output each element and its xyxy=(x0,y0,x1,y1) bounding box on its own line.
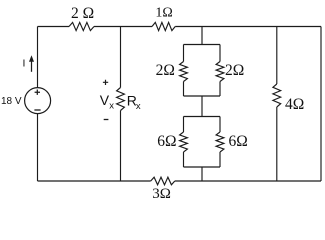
svg-text:1Ω: 1Ω xyxy=(155,5,172,20)
source plus sign xyxy=(35,90,40,95)
svg-text:2 Ω: 2 Ω xyxy=(71,5,94,22)
wire left top (source to top wire) xyxy=(37,27,39,88)
wire bottom right segment xyxy=(175,180,321,182)
wire bottom left segment xyxy=(38,180,151,182)
wire Rx branch bottom xyxy=(120,111,122,182)
resistor 6ohm right of pair xyxy=(219,117,221,133)
wire middle branch lower xyxy=(201,167,203,181)
wire box2 top xyxy=(184,116,221,118)
source minus sign xyxy=(34,109,40,111)
wire right side xyxy=(320,27,322,182)
svg-text:18 V: 18 V xyxy=(1,96,22,107)
wire Rx branch top xyxy=(120,27,122,88)
wire top middle segment xyxy=(94,26,152,28)
voltage source 18V circle xyxy=(25,88,51,114)
wire top right segment xyxy=(175,26,321,28)
wire left bottom (source to bottom wire) xyxy=(37,114,39,181)
resistor 6ohm left of pair xyxy=(183,117,185,133)
current arrow I xyxy=(31,61,33,72)
label plus (Vx) xyxy=(103,80,108,85)
label minus (Vx) xyxy=(104,119,109,121)
svg-text:2Ω: 2Ω xyxy=(225,62,244,79)
svg-text:4Ω: 4Ω xyxy=(285,96,304,113)
resistor 2ohm right of pair xyxy=(219,45,221,62)
svg-text:I: I xyxy=(23,58,26,70)
svg-text:3Ω: 3Ω xyxy=(152,186,171,202)
wire box2 bottom xyxy=(184,166,221,168)
wire 4ohm branch bottom xyxy=(276,107,278,181)
resistor 1ohm (top) xyxy=(152,22,175,30)
resistor 3ohm (bottom) xyxy=(151,177,175,185)
wire box1 bottom xyxy=(184,95,221,97)
svg-text:x: x xyxy=(136,101,141,112)
wire middle branch between boxes xyxy=(201,96,203,117)
resistor 2ohm left of pair xyxy=(183,45,185,62)
wire middle branch upper xyxy=(201,27,203,45)
wire box1 top xyxy=(184,44,221,46)
wire top-left segment xyxy=(38,26,70,28)
wire 4ohm branch top xyxy=(276,27,278,85)
resistor Rx xyxy=(117,88,125,111)
svg-text:6Ω: 6Ω xyxy=(229,133,248,150)
svg-text:6Ω: 6Ω xyxy=(157,133,176,150)
svg-text:x: x xyxy=(109,101,114,112)
svg-text:2Ω: 2Ω xyxy=(156,62,175,79)
resistor 2ohm (top left) xyxy=(69,22,94,30)
resistor 4ohm xyxy=(273,84,281,107)
